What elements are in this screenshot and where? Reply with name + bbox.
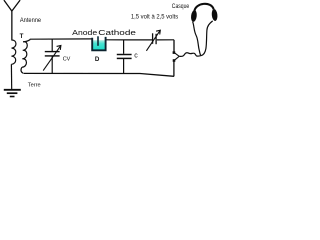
svg-text:Antenne: Antenne	[20, 18, 42, 24]
bottom rail	[23, 73, 174, 76]
headphone left earpiece	[190, 10, 197, 22]
variable capacitor CV bottom lead	[51, 57, 53, 74]
fork lower branch	[174, 56, 179, 60]
svg-text:Terre: Terre	[28, 83, 41, 89]
svg-text:Anode: Anode	[72, 28, 97, 37]
top rail right segment	[157, 39, 174, 41]
headphone left cord	[193, 22, 201, 56]
diode D center wire (cat's whisker)	[97, 36, 99, 46]
svg-text:T: T	[20, 33, 24, 40]
transformer primary coil	[11, 40, 16, 64]
transformer secondary coil	[22, 42, 27, 68]
variable capacitor CV top lead	[51, 39, 53, 51]
svg-text:CV: CV	[63, 57, 71, 63]
svg-text:Casque: Casque	[172, 4, 190, 10]
headphone terminal dot lower	[173, 59, 176, 62]
svg-text:1,5 volt à 2,5 volts: 1,5 volt à 2,5 volts	[131, 13, 178, 20]
wire primary coil to ground	[10, 64, 12, 89]
capacitor C top lead	[123, 40, 125, 54]
ground (Terre) symbol	[4, 90, 21, 97]
headphone right earpiece	[211, 9, 218, 22]
diode D cup liquid fill	[93, 40, 105, 50]
headphone headband	[194, 4, 213, 11]
headphone right cord	[201, 21, 213, 56]
headphone terminal dot upper	[173, 51, 176, 54]
wire secondary top to rail	[23, 40, 30, 42]
capacitor C plates	[117, 54, 132, 56]
svg-text:Cathode: Cathode	[98, 28, 136, 37]
fork upper branch	[174, 53, 179, 57]
capacitor C bottom lead	[123, 59, 125, 74]
variable capacitor CV plates	[45, 51, 60, 53]
right wire down to bottom rail	[173, 61, 175, 76]
antenna	[4, 1, 20, 41]
svg-text:D: D	[95, 56, 100, 63]
top rail middle segment (diode to trimmer plate)	[107, 39, 153, 41]
wire secondary bottom to rail	[21, 67, 23, 73]
trimmer capacitor plates (series, vertical)	[152, 33, 154, 44]
right wire down to headphone terminal	[173, 40, 175, 52]
trimmer capacitor arrow	[146, 30, 160, 51]
variable capacitor CV arrow	[43, 46, 61, 71]
top rail left segment	[30, 38, 92, 40]
headphone cord (fork to earpieces, wavy)	[179, 53, 201, 57]
svg-text:c: c	[134, 53, 138, 60]
diode D cup outline	[92, 37, 105, 50]
